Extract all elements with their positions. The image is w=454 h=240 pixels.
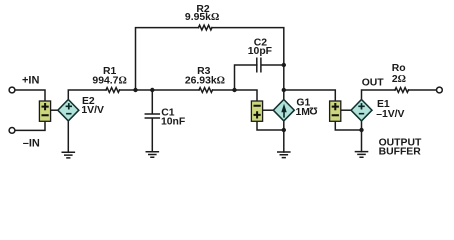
svg-text:BUFFER: BUFFER [379, 147, 422, 158]
svg-text:1V/V: 1V/V [81, 105, 104, 116]
svg-text:10pF: 10pF [248, 46, 272, 57]
svg-text:–1V/V: –1V/V [376, 109, 404, 120]
svg-text:Ro: Ro [392, 63, 406, 74]
svg-text:9.95kΩ: 9.95kΩ [185, 12, 219, 23]
svg-text:10nF: 10nF [161, 117, 185, 128]
svg-text:26.93kΩ: 26.93kΩ [185, 75, 225, 86]
svg-text:1M: 1M [296, 107, 310, 118]
svg-text:994.7Ω: 994.7Ω [92, 75, 126, 86]
svg-text:–IN: –IN [23, 138, 40, 150]
svg-text:OUT: OUT [362, 78, 385, 89]
svg-text:2Ω: 2Ω [392, 74, 406, 85]
svg-text:Ω: Ω [309, 105, 317, 116]
svg-text:+IN: +IN [22, 75, 39, 87]
